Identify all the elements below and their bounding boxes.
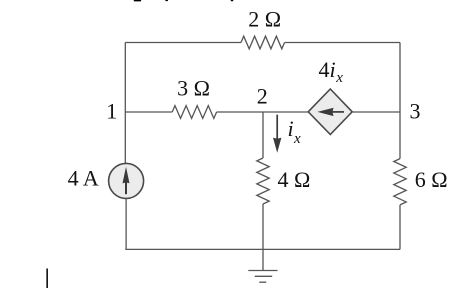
wire: node2 vertical drop to R 4ohm [262,112,264,158]
svg-text:2 Ω: 2 Ω [248,7,281,32]
resistor 6ohm (right vertical) [394,159,406,205]
wire: ground stem [262,249,264,270]
wire: middle horizontal (source to node3) [353,111,400,113]
wire: top-left horizontal segment [125,42,241,44]
resistor 2ohm (top) [241,36,285,49]
wire: top-right horizontal segment [285,42,401,44]
label: 4ix source value [319,57,344,86]
label: ix current [288,116,302,147]
independent current source 4A (circle) [109,163,144,198]
top page-edge text artifact 3 [231,0,234,1]
svg-text:4 Ω: 4 Ω [277,167,310,192]
svg-text:1: 1 [106,99,117,124]
wire: R 4ohm to bottom wire [262,204,264,249]
svg-text:3: 3 [410,99,421,124]
ground symbol [248,271,277,283]
resistor 4ohm (middle vertical) [257,158,269,204]
top page-edge text artifact 1 [134,0,142,1]
svg-text:4 A: 4 A [68,165,99,190]
wire: right vertical (top wire through node3 to R 6ohm) [399,43,401,159]
wire: left vertical lower (source to bottom wire) [125,199,127,250]
current arrow ix (downward) [273,115,281,153]
svg-text:i: i [288,116,294,141]
svg-text:6 Ω: 6 Ω [415,167,448,192]
svg-text:4i: 4i [319,57,336,82]
dependent current source 4ix (diamond) [308,89,352,135]
wire: middle horizontal (R 3ohm to dependent source) [217,111,308,113]
svg-text:3 Ω: 3 Ω [177,76,210,101]
svg-text:x: x [293,131,301,147]
svg-text:x: x [335,70,343,86]
top page-edge text artifact 2 [165,0,168,1]
wire: middle-left horizontal (node1 to R 3ohm) [125,111,172,113]
wire: R 6ohm to bottom wire [399,205,401,250]
resistor 3ohm (middle) [172,106,216,119]
svg-text:2: 2 [257,84,268,109]
text cursor bar bottom-left [46,269,48,288]
wire: left vertical upper (node1 riser) [124,43,126,164]
wire: bottom horizontal [125,248,400,250]
